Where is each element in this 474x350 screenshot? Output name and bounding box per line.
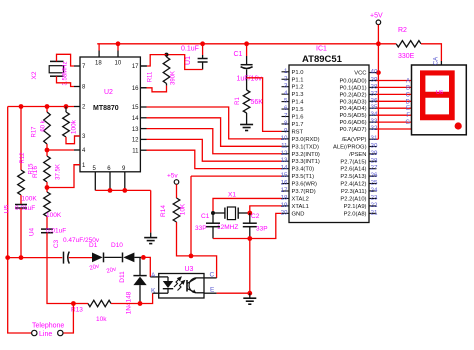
wire C3 to D1 bbox=[69, 257, 92, 259]
resistor R2 330E bbox=[396, 27, 421, 60]
svg-text:+5v: +5v bbox=[167, 173, 178, 180]
resistor R14 10K bbox=[160, 198, 187, 222]
svg-text:Line: Line bbox=[39, 331, 52, 338]
wire junction to U2 pin1 bbox=[47, 165, 80, 188]
svg-text:P0.4(AD4): P0.4(AD4) bbox=[339, 106, 366, 112]
svg-text:CA: CA bbox=[434, 57, 440, 65]
svg-text:26: 26 bbox=[371, 172, 378, 179]
node D11 anode junction bbox=[138, 301, 143, 306]
svg-text:22: 22 bbox=[371, 202, 378, 209]
svg-text:18: 18 bbox=[95, 61, 102, 67]
capacitor U5 0.01uF bbox=[4, 204, 36, 213]
wire R2 to display CA bbox=[421, 44, 441, 65]
svg-text:F: F bbox=[406, 113, 410, 119]
crystal X2 3.58MHz bbox=[31, 61, 69, 85]
svg-text:P0.7(AD7): P0.7(AD7) bbox=[339, 127, 366, 133]
svg-text:P1.3: P1.3 bbox=[292, 92, 304, 98]
svg-text:18: 18 bbox=[281, 194, 288, 201]
svg-text:P1.6: P1.6 bbox=[292, 115, 304, 121]
svg-text:7: 7 bbox=[284, 113, 288, 120]
svg-text:P3.2(INT0): P3.2(INT0) bbox=[292, 152, 320, 158]
svg-text:P2.7(A15): P2.7(A15) bbox=[340, 159, 366, 165]
wire 100k to U2 pin3 bbox=[66, 136, 80, 144]
svg-text:P1.2: P1.2 bbox=[292, 85, 304, 91]
svg-text:P0.3(AD3): P0.3(AD3) bbox=[339, 99, 366, 105]
svg-text:U5: U5 bbox=[4, 204, 11, 213]
wire U2 Q4 to IC1 bbox=[147, 107, 282, 139]
svg-text:12: 12 bbox=[281, 150, 288, 157]
node U5 rail junction bbox=[19, 255, 24, 260]
svg-text:R17: R17 bbox=[32, 126, 38, 138]
capacitor C2 33P bbox=[243, 213, 268, 239]
wire left vertical to telephone bbox=[8, 107, 32, 334]
opto U3 body bbox=[159, 266, 204, 298]
display U6 body bbox=[412, 65, 467, 135]
svg-text:P2.1(A9): P2.1(A9) bbox=[344, 204, 367, 210]
power +5v R14 bbox=[167, 173, 179, 199]
svg-text:24: 24 bbox=[371, 187, 378, 194]
node opto pullup junction bbox=[189, 254, 194, 259]
display CA pin label bbox=[434, 57, 440, 65]
svg-text:0.1uF: 0.1uF bbox=[181, 46, 199, 53]
node E ground junction bbox=[247, 291, 252, 296]
wire EA pin31 link bbox=[377, 138, 379, 140]
svg-text:XTAL1: XTAL1 bbox=[292, 204, 309, 210]
wire GND pin20 net bbox=[250, 213, 282, 238]
svg-text:X2: X2 bbox=[31, 71, 38, 79]
svg-text:P3.0(RXD): P3.0(RXD) bbox=[292, 137, 320, 143]
node rail junction +5V bbox=[376, 41, 381, 46]
wire U2 pin4 net bbox=[45, 148, 74, 153]
svg-text:P3.4(T0): P3.4(T0) bbox=[292, 167, 315, 173]
capacitor U1 0.1uF bbox=[181, 41, 208, 69]
svg-text:P2.5(A13): P2.5(A13) bbox=[340, 174, 366, 180]
svg-text:P0.2(AD2): P0.2(AD2) bbox=[339, 92, 366, 98]
svg-text:C1: C1 bbox=[234, 51, 243, 58]
capacitor U4 0.01uF bbox=[29, 227, 67, 236]
svg-text:13: 13 bbox=[132, 127, 139, 133]
svg-text:P1.4: P1.4 bbox=[292, 100, 305, 106]
svg-text:R12: R12 bbox=[20, 152, 26, 164]
svg-text:P3.5(T1): P3.5(T1) bbox=[292, 174, 315, 180]
svg-text:D: D bbox=[406, 99, 411, 105]
svg-text:30: 30 bbox=[371, 143, 378, 150]
svg-text:0.01uF: 0.01uF bbox=[46, 228, 66, 235]
wire bottom rail left bbox=[8, 257, 63, 259]
svg-text:P2.3(A11): P2.3(A11) bbox=[341, 189, 367, 195]
svg-text:1uF/16v: 1uF/16v bbox=[237, 76, 263, 83]
svg-text:390K: 390K bbox=[171, 71, 177, 85]
wire U2 pin17 to R11 bbox=[140, 55, 166, 66]
svg-text:R2: R2 bbox=[398, 27, 407, 34]
svg-text:P0.0(AD0): P0.0(AD0) bbox=[339, 79, 366, 85]
svg-text:D10: D10 bbox=[111, 242, 123, 249]
wire U2 pin2 net bbox=[8, 106, 74, 108]
node pin2/R12 bbox=[19, 104, 24, 109]
IC1 right pins bbox=[333, 69, 378, 218]
svg-text:P0.5(AD5): P0.5(AD5) bbox=[339, 113, 366, 119]
svg-text:Telephone: Telephone bbox=[32, 323, 64, 330]
wire top power rail bbox=[97, 43, 396, 45]
svg-text:K: K bbox=[151, 288, 156, 295]
svg-text:14: 14 bbox=[281, 165, 288, 172]
power +5V supply bbox=[370, 13, 383, 140]
wire U5 to bottom rail bbox=[20, 208, 22, 258]
resistor R16 100K bbox=[32, 166, 62, 229]
svg-text:16: 16 bbox=[132, 86, 139, 92]
display segments bbox=[420, 70, 462, 129]
svg-text:U2: U2 bbox=[104, 89, 113, 96]
svg-text:C: C bbox=[406, 92, 411, 98]
U2 bottom pin stubs bbox=[93, 166, 127, 191]
node pin2/R17 bbox=[45, 104, 50, 109]
wire XTAL1 net bbox=[250, 206, 282, 213]
svg-text:P1.7: P1.7 bbox=[292, 122, 304, 128]
svg-text:MT8870: MT8870 bbox=[93, 105, 119, 112]
svg-text:C3: C3 bbox=[53, 239, 60, 248]
svg-text:R1: R1 bbox=[235, 97, 241, 105]
svg-text:6: 6 bbox=[284, 105, 288, 112]
svg-text:11: 11 bbox=[281, 142, 288, 149]
IC1 left pins bbox=[281, 68, 320, 218]
ground at E junction bbox=[243, 293, 256, 304]
wire X1 bus down to E node bbox=[249, 239, 251, 294]
svg-text:VCC: VCC bbox=[354, 71, 366, 77]
svg-text:25: 25 bbox=[371, 180, 378, 187]
diode D10 20v zener bbox=[106, 242, 141, 275]
svg-text:14: 14 bbox=[132, 116, 139, 122]
svg-text:C1: C1 bbox=[201, 213, 210, 220]
svg-text:R14: R14 bbox=[160, 205, 167, 217]
svg-text:B: B bbox=[406, 85, 410, 91]
svg-text:33P: 33P bbox=[195, 225, 207, 232]
wire opto to IC1 pin15 T1 bbox=[191, 175, 282, 177]
U2 right pin stubs bbox=[132, 64, 147, 154]
svg-text:U6: U6 bbox=[436, 90, 443, 96]
resistor R17 60k bbox=[32, 107, 51, 151]
svg-text:17: 17 bbox=[132, 64, 139, 70]
svg-text:P0.1(AD1): P0.1(AD1) bbox=[339, 85, 366, 91]
svg-text:13: 13 bbox=[281, 157, 288, 164]
svg-text:P3.1(TXD): P3.1(TXD) bbox=[292, 144, 319, 150]
svg-text:16: 16 bbox=[281, 180, 288, 187]
display segment pin labels bbox=[405, 79, 410, 127]
svg-text:4: 4 bbox=[284, 90, 288, 97]
svg-text:100K: 100K bbox=[46, 212, 62, 219]
wire U2 Q3 to IC1 bbox=[147, 118, 282, 147]
svg-text:3.58MHz: 3.58MHz bbox=[63, 61, 69, 85]
svg-text:10: 10 bbox=[115, 61, 122, 67]
svg-text:A: A bbox=[151, 272, 156, 279]
svg-text:0.01uF: 0.01uF bbox=[15, 205, 35, 212]
node R13 left junction bbox=[71, 301, 76, 306]
diode D11 1N4148 bbox=[119, 257, 147, 314]
svg-text:XTAL2: XTAL2 bbox=[292, 196, 309, 202]
wire D1 to D10 bbox=[104, 256, 121, 258]
svg-text:1N4148: 1N4148 bbox=[126, 291, 133, 314]
node X1 right junction bbox=[247, 211, 252, 216]
telephone terminal 2 bbox=[58, 330, 63, 335]
wire X2 bottom to U2 pin8 bbox=[57, 76, 75, 86]
wire U2 Q2 to IC1 bbox=[147, 129, 282, 154]
wire opto E to ground node bbox=[204, 292, 250, 294]
svg-text:D11: D11 bbox=[119, 271, 126, 283]
svg-text:10: 10 bbox=[281, 135, 288, 142]
wire U2 Q1 to IC1 bbox=[147, 139, 282, 161]
node VCC junction bbox=[376, 70, 381, 75]
svg-text:+5V: +5V bbox=[370, 13, 383, 20]
svg-text:P0.6(AD6): P0.6(AD6) bbox=[339, 120, 366, 126]
resistor R13 10k bbox=[71, 300, 140, 323]
svg-text:U4: U4 bbox=[29, 227, 36, 236]
resistor R15 37.5K bbox=[29, 150, 62, 188]
capacitor C1 1uF/16v bbox=[234, 41, 263, 90]
node X1 left junction bbox=[211, 211, 215, 215]
svg-text:AT89C51: AT89C51 bbox=[302, 54, 343, 65]
opto phototransistor bbox=[187, 278, 204, 293]
wire U4 to R13 node bbox=[47, 233, 73, 304]
svg-text:P1.5: P1.5 bbox=[292, 107, 304, 113]
ic IC1 AT89C51 body bbox=[289, 46, 369, 223]
diode D1 20v zener bbox=[89, 242, 104, 272]
U2 top pin stubs bbox=[95, 61, 122, 67]
svg-text:P2.0(A8): P2.0(A8) bbox=[344, 211, 367, 217]
wire U1 cap to R11 top bbox=[167, 55, 203, 70]
svg-text:12MHZ: 12MHZ bbox=[217, 224, 238, 231]
svg-text:IC1: IC1 bbox=[316, 46, 327, 53]
wire junction to opto C bbox=[191, 256, 217, 278]
svg-text:P3.6(WR): P3.6(WR) bbox=[292, 182, 318, 188]
label Telephone Line bbox=[32, 323, 64, 339]
node pin2/100k bbox=[64, 104, 69, 109]
svg-text:40: 40 bbox=[371, 69, 378, 76]
svg-text:/PSEN: /PSEN bbox=[349, 152, 366, 158]
svg-text:A: A bbox=[406, 79, 410, 85]
U2 left pin stubs bbox=[74, 64, 86, 169]
wires P0 bus to display bbox=[377, 81, 412, 130]
svg-text:11: 11 bbox=[132, 148, 139, 154]
node R11 top junction bbox=[165, 53, 169, 57]
svg-text:C: C bbox=[210, 272, 215, 279]
node far-left rail junction bbox=[5, 255, 10, 260]
wire junction to pin15 wire bbox=[190, 176, 192, 256]
svg-text:R11: R11 bbox=[148, 71, 154, 82]
svg-text:3: 3 bbox=[284, 83, 288, 90]
svg-text:/EA(VPP): /EA(VPP) bbox=[342, 137, 367, 143]
svg-text:P2.4(A12): P2.4(A12) bbox=[340, 182, 366, 188]
svg-text:12: 12 bbox=[132, 138, 139, 144]
resistor R1 56K bbox=[235, 90, 263, 113]
svg-text:P2.2(A10): P2.2(A10) bbox=[340, 196, 366, 202]
svg-text:60 k: 60 k bbox=[41, 119, 47, 131]
resistor R12 100K bbox=[18, 107, 38, 205]
op-amp U2 MT8870 body bbox=[80, 57, 140, 172]
svg-text:19: 19 bbox=[281, 202, 288, 209]
wire to telephone terminal 2 bbox=[63, 304, 73, 334]
svg-text:56K: 56K bbox=[251, 99, 264, 106]
wire U2 Q0 to IC1 bbox=[147, 150, 282, 168]
svg-text:37.5K: 37.5K bbox=[56, 164, 62, 180]
svg-text:E: E bbox=[406, 106, 410, 112]
svg-text:R16: R16 bbox=[32, 166, 39, 178]
svg-text:33P: 33P bbox=[256, 226, 268, 233]
svg-text:1: 1 bbox=[284, 68, 288, 75]
svg-text:31: 31 bbox=[371, 135, 378, 142]
svg-text:27: 27 bbox=[371, 165, 378, 172]
node rail junction pin10 bbox=[116, 41, 121, 57]
svg-text:D1: D1 bbox=[89, 242, 98, 249]
svg-text:330E: 330E bbox=[398, 53, 415, 60]
ground below R1 bbox=[240, 113, 253, 131]
capacitor C1 33P bbox=[195, 213, 220, 239]
svg-text:100K: 100K bbox=[22, 196, 38, 203]
opto light arrows bbox=[174, 277, 185, 290]
node D10 junction bbox=[141, 255, 146, 260]
svg-text:29: 29 bbox=[371, 150, 378, 157]
svg-text:28: 28 bbox=[371, 157, 378, 164]
svg-text:9: 9 bbox=[284, 127, 288, 134]
wire X2 top to U2 pin7 bbox=[57, 54, 75, 66]
wire RST net bbox=[247, 78, 282, 132]
wire X1 ground bus bbox=[213, 238, 250, 240]
svg-text:RST: RST bbox=[292, 129, 304, 135]
node R15 bottom junction bbox=[45, 185, 50, 190]
wire U2 ground bus bbox=[95, 188, 150, 233]
svg-text:X1: X1 bbox=[228, 192, 236, 199]
svg-text:21: 21 bbox=[371, 209, 378, 216]
svg-text:U1: U1 bbox=[185, 56, 192, 65]
wire pin18 drop bbox=[98, 44, 100, 57]
opto LED bbox=[159, 277, 174, 293]
node X1 ground junction bbox=[247, 236, 252, 241]
svg-text:P3.3(INT1): P3.3(INT1) bbox=[292, 159, 320, 165]
svg-text:GND: GND bbox=[292, 211, 305, 217]
wire D11 junction to opto K bbox=[140, 293, 159, 303]
opto pin labels bbox=[151, 272, 215, 295]
svg-text:15: 15 bbox=[132, 105, 139, 111]
svg-text:17: 17 bbox=[281, 187, 288, 194]
svg-text:C2: C2 bbox=[251, 213, 260, 220]
svg-text:U3: U3 bbox=[185, 266, 194, 273]
resistor R11 390K bbox=[148, 55, 177, 86]
crystal X1 12MHZ bbox=[213, 192, 250, 232]
svg-text:10k: 10k bbox=[96, 316, 107, 323]
svg-text:10K: 10K bbox=[180, 203, 187, 215]
svg-text:E: E bbox=[210, 287, 215, 294]
svg-text:G: G bbox=[405, 120, 410, 126]
wire R14 bottom to junction bbox=[177, 222, 192, 256]
wire XTAL2 net bbox=[213, 198, 282, 213]
svg-text:8: 8 bbox=[284, 120, 288, 127]
svg-text:P2.6(A14): P2.6(A14) bbox=[340, 167, 366, 173]
svg-text:23: 23 bbox=[371, 194, 378, 201]
wire D10 junction to opto A bbox=[143, 257, 158, 277]
svg-text:15: 15 bbox=[281, 172, 288, 179]
svg-text:P3.7(RD): P3.7(RD) bbox=[292, 189, 316, 195]
ground below U2 bbox=[144, 233, 157, 244]
svg-text:P1.1: P1.1 bbox=[292, 77, 304, 83]
telephone terminal 1 bbox=[32, 330, 37, 335]
svg-text:2: 2 bbox=[284, 75, 288, 82]
svg-text:ALE(/PROG): ALE(/PROG) bbox=[333, 145, 367, 151]
capacitor C3 0.47uF/250v bbox=[53, 237, 100, 264]
svg-text:5: 5 bbox=[284, 98, 288, 105]
svg-text:100k: 100k bbox=[71, 119, 78, 134]
resistor 100k to pin3 bbox=[63, 107, 78, 138]
svg-text:P1.0: P1.0 bbox=[292, 70, 304, 76]
wire U2 pin16 to R11 bbox=[140, 86, 166, 92]
svg-text:20: 20 bbox=[281, 209, 288, 216]
